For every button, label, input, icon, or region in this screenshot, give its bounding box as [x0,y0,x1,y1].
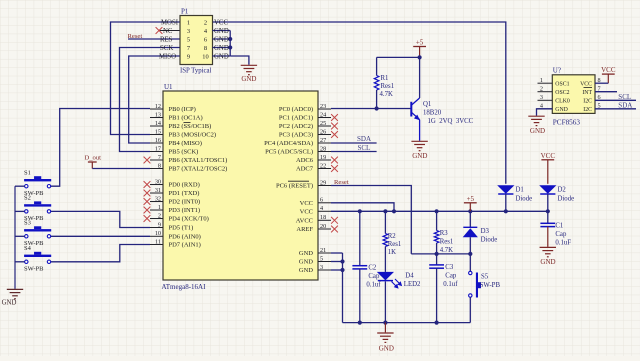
diode D3 [469,211,471,227]
svg-text:PB3 (MOSI/OC2): PB3 (MOSI/OC2) [169,132,217,139]
svg-text:SCL: SCL [358,144,371,152]
svg-text:27: 27 [320,137,326,144]
svg-text:MOSI: MOSI [161,20,179,27]
junction reset D3 [468,252,472,256]
transistor Q1 18B20 [419,57,421,98]
junction gnd pin3 [340,268,344,272]
svg-text:Cap: Cap [555,231,567,238]
svg-text:GND: GND [299,267,313,274]
svg-text:10: 10 [155,230,161,237]
svg-text:GND: GND [214,54,229,61]
svg-text:25: 25 [320,120,326,127]
junction +5 collector [418,55,422,59]
pin NC stub with no-connect X on P1 pin 3 [159,30,180,32]
svg-text:3: 3 [187,28,190,35]
svg-text:Reset: Reset [334,179,349,186]
svg-text:SDA: SDA [357,135,371,143]
svg-text:22: 22 [320,162,326,169]
wire S3 to U1 PD6 [51,235,150,237]
svg-text:PD2 (INT0): PD2 (INT0) [169,199,201,206]
overline on SS in PB2 pin name [184,122,191,124]
svg-text:18B20: 18B20 [423,110,442,117]
svg-text:PC6 (RESET): PC6 (RESET) [276,183,313,190]
microcontroller U1 body [163,91,318,280]
svg-text:15: 15 [155,128,161,135]
svg-text:ATmega8-16AI: ATmega8-16AI [162,283,207,291]
wire U1 PB0 to switch S1 [51,109,150,187]
diode D2 [539,185,556,194]
svg-text:PC1 (ADC1): PC1 (ADC1) [279,115,313,122]
svg-text:18: 18 [320,214,326,221]
svg-text:PD6 (AIN0): PD6 (AIN0) [169,234,201,241]
junction reset R3 [435,252,439,256]
svg-text:R1: R1 [381,75,389,82]
svg-text:GND: GND [241,75,256,83]
wire MISO from P1 pin 9 down to U1 PB4 [129,56,180,143]
svg-text:D3: D3 [481,228,490,235]
LED D4 [377,272,394,281]
svg-text:Res1: Res1 [381,83,395,90]
wire SCL stub on U1 PC5 [331,151,377,153]
U1 right pin stubs names numbers [318,108,331,110]
wire MOSI from P1 pin 1 down to U1 PB3 [111,22,181,135]
svg-text:C3: C3 [445,264,454,271]
svg-text:Reset: Reset [128,33,143,40]
svg-text:RES: RES [160,37,173,44]
wire U? pin 7 INT stub [595,91,617,93]
wire reset row R3 to S5 [411,253,470,255]
svg-text:SDA: SDA [618,102,632,110]
wire Reset from U1 PC6 down to reset row [331,186,411,254]
overline on INT pin name [584,87,593,89]
wire switch ground bus [14,186,16,289]
svg-text:PC0 (ADC0): PC0 (ADC0) [279,106,313,113]
svg-text:1: 1 [158,204,161,211]
rtc U? body [552,75,595,114]
svg-text:PB2 (SS/OC1B): PB2 (SS/OC1B) [169,123,212,130]
switch S4 [24,255,51,257]
junction R1 bottom [375,106,379,110]
wire U1 GND pins bracket [331,252,343,254]
svg-text:6: 6 [204,37,207,44]
svg-text:GND: GND [299,250,313,257]
svg-text:6: 6 [320,197,323,204]
svg-text:PC5 (ADC5/SCL): PC5 (ADC5/SCL) [265,149,313,156]
svg-text:PD3 (INT1): PD3 (INT1) [169,207,201,214]
junction bus LED [383,321,387,325]
ground under P1 [241,65,257,74]
svg-text:2: 2 [540,85,543,92]
wire +5 rail from U1 VCC pin4 to C1 [331,210,548,212]
svg-text:29: 29 [320,179,326,186]
capacitor C1 [547,211,549,223]
junction bus C3 [435,321,439,325]
svg-text:VCC: VCC [541,152,556,160]
svg-text:21: 21 [320,247,326,254]
svg-text:Res1: Res1 [388,241,402,248]
wire LED to gnd bus [384,282,386,323]
svg-text:GND: GND [412,152,427,160]
resistor R3 [436,211,438,230]
svg-text:GND: GND [299,259,313,266]
svg-text:5: 5 [320,255,323,262]
svg-text:S2: S2 [24,195,31,202]
svg-text:PD7 (AIN1): PD7 (AIN1) [169,242,201,249]
svg-text:PB0 (ICP): PB0 (ICP) [169,106,196,113]
ground under Q1 [411,141,427,150]
wire U? pin 6 SCL [595,99,636,101]
svg-text:S3: S3 [24,220,31,227]
svg-text:GND: GND [214,28,229,35]
svg-text:ISP Typical: ISP Typical [180,68,212,75]
svg-text:VCC: VCC [300,209,313,216]
junction P1 gnd 2 [228,45,232,49]
resistor R2 [384,211,386,233]
svg-text:1: 1 [187,20,190,27]
wire gnd bottom bus [343,322,471,324]
svg-text:AREF: AREF [296,226,313,233]
svg-text:19: 19 [320,154,326,161]
svg-text:SCL: SCL [618,93,631,101]
svg-text:1: 1 [540,77,543,84]
wire +5 to R1 and Q1 collector [377,56,420,58]
wire GND bracket P1 pins 4 6 8 10 [213,30,231,32]
junction rail R3 [435,209,439,213]
switch S2 [24,204,51,206]
svg-text:PC4 (ADC4/SDA): PC4 (ADC4/SDA) [264,140,313,147]
junction P1 gnd 1 [228,37,232,41]
svg-text:PD5 (T1): PD5 (T1) [169,225,194,232]
svg-text:GND: GND [555,107,568,113]
svg-text:PB4 (MISO): PB4 (MISO) [169,140,202,147]
svg-text:D2: D2 [558,187,567,194]
svg-text:14: 14 [155,120,161,127]
capacitor C3 [436,254,438,265]
svg-text:32: 32 [155,195,161,202]
svg-text:SW-PB: SW-PB [480,282,501,289]
junction rail C2 [358,209,362,213]
svg-text:0.1uF: 0.1uF [555,240,571,247]
svg-text:PB6 (XTAL1/TOSC1): PB6 (XTAL1/TOSC1) [169,157,228,164]
wire S4 to U1 PD7 [51,245,150,262]
svg-text:16: 16 [155,137,161,144]
svg-text:2: 2 [158,212,161,219]
svg-text:GND: GND [540,258,555,266]
svg-text:1G 2VQ 3VCC: 1G 2VQ 3VCC [428,118,474,125]
wire S3 left to gnd bus [15,235,25,237]
wire S4 left to gnd bus [15,261,25,263]
svg-text:30: 30 [155,178,161,185]
svg-text:Cap: Cap [368,273,380,280]
svg-text:PB1 (OC1A): PB1 (OC1A) [169,115,203,122]
capacitor C2 [359,211,361,265]
wire S5 to gnd bus [469,297,471,322]
svg-text:NC: NC [163,28,173,35]
svg-text:R2: R2 [388,233,397,240]
svg-text:I2C: I2C [583,99,592,105]
svg-text:D1: D1 [516,187,524,194]
wire U? GND pin 4 to ground [537,109,553,116]
svg-text:PB7 (XTAL2/TOSC2): PB7 (XTAL2/TOSC2) [169,166,228,173]
svg-text:Diode: Diode [481,237,498,244]
svg-text:CLK0: CLK0 [555,99,570,105]
junction rail +5 [468,209,472,213]
svg-text:Cap: Cap [445,272,457,279]
svg-text:D4: D4 [405,273,414,280]
svg-text:SCK: SCK [160,45,173,52]
junction bus C2 [358,321,362,325]
svg-text:10: 10 [202,54,208,61]
svg-text:Diode: Diode [516,196,533,203]
ground under C1 [540,247,556,256]
svg-text:9: 9 [187,54,190,61]
switch S1 [24,179,51,181]
svg-text:+5: +5 [467,195,475,203]
svg-text:+5: +5 [416,39,424,47]
svg-text:8: 8 [204,45,207,52]
svg-text:13: 13 [155,111,161,118]
junction rail pin6 [392,209,396,213]
svg-text:R3: R3 [440,230,449,237]
wire U1 PC0 to Q1 base [331,108,411,110]
wire RES stub on P1 pin 5 [128,38,180,40]
svg-text:MISO: MISO [159,54,176,61]
svg-text:GND: GND [214,45,229,52]
U1 left pin stubs names numbers [150,108,163,110]
svg-text:5: 5 [187,37,190,44]
svg-text:4.7K: 4.7K [380,91,393,98]
wire S2 to U1 PD5 [51,211,150,227]
svg-text:0.1uf: 0.1uf [366,281,381,288]
svg-text:PCF8563: PCF8563 [553,119,581,127]
svg-text:2: 2 [204,20,207,27]
resistor R1 [376,57,378,75]
wire SCK from P1 pin 7 down to U1 PB5 [120,48,181,152]
svg-text:GND: GND [530,127,545,135]
svg-text:24: 24 [320,111,326,118]
junction rail C1 [546,209,550,213]
svg-text:OSC1: OSC1 [555,81,569,87]
ground mid bottom [384,323,386,333]
svg-text:GND: GND [379,345,394,353]
ground under U? [528,116,544,125]
svg-text:SW-PB: SW-PB [24,265,44,272]
svg-text:U1: U1 [164,83,173,91]
junction gnd pin5 [340,259,344,263]
svg-text:S4: S4 [24,245,32,252]
svg-text:1K: 1K [388,249,396,256]
wire S1 left to gnd bus [15,185,25,187]
svg-text:9: 9 [158,221,161,228]
wire U1 VCC pin6 to rail [331,203,394,212]
U? left pin stubs and numbers [538,82,553,84]
svg-text:U?: U? [553,67,561,75]
svg-text:12: 12 [155,103,161,110]
svg-text:VCC: VCC [601,66,616,74]
wire U? pin 5 SDA [595,108,636,110]
svg-text:AVCC: AVCC [296,218,313,225]
svg-text:17: 17 [155,145,161,152]
connector P1 body [180,16,213,65]
svg-text:D_out: D_out [85,155,102,162]
wire S2 left to gnd bus [15,210,25,212]
svg-text:4.7K: 4.7K [440,247,453,254]
svg-text:OSC2: OSC2 [555,90,569,96]
svg-text:VCC: VCC [214,20,228,27]
svg-text:7: 7 [158,154,161,161]
svg-text:31: 31 [155,187,161,194]
svg-text:Q1: Q1 [423,101,431,108]
junction rail D1 [504,209,508,213]
svg-text:VCC: VCC [580,81,592,87]
svg-text:Diode: Diode [558,196,575,203]
svg-text:ADC7: ADC7 [296,166,314,173]
svg-text:23: 23 [320,103,326,110]
svg-text:4: 4 [320,205,323,212]
overline on RESET pin name [288,180,309,182]
svg-text:PC3 (ADC3): PC3 (ADC3) [279,132,313,139]
diode D1 [497,185,514,194]
svg-text:3: 3 [540,94,543,101]
svg-text:28: 28 [320,145,326,152]
svg-text:LED2: LED2 [404,281,421,288]
svg-text:C1: C1 [555,222,563,229]
svg-text:3: 3 [320,264,323,271]
svg-text:20: 20 [320,223,326,230]
svg-text:8: 8 [158,162,161,169]
switch S5 [469,254,471,271]
svg-text:11: 11 [155,238,161,245]
switch S3 [24,229,51,231]
svg-text:PD0 (RXD): PD0 (RXD) [169,182,200,189]
svg-text:GND: GND [2,300,17,307]
svg-text:INT: INT [582,90,592,96]
svg-text:PD4 (XCK/T0): PD4 (XCK/T0) [169,216,209,223]
svg-text:S5: S5 [481,274,489,281]
svg-text:VCC: VCC [300,200,313,207]
ground at switch bus [7,289,23,298]
wire D_out to U1 PB7 [92,168,150,170]
svg-text:P1: P1 [181,8,189,16]
wire VCC from P1 pin 2 to diode D1 [213,22,506,184]
svg-text:C2: C2 [368,264,377,271]
svg-text:Res1: Res1 [440,239,454,246]
svg-text:0.1uf: 0.1uf [443,281,458,288]
svg-text:GND: GND [214,37,229,44]
svg-text:S1: S1 [24,170,31,177]
wire U? pin 8 to VCC [595,82,608,84]
junction rail R2 [383,209,387,213]
svg-text:I2C: I2C [583,107,592,113]
svg-text:26: 26 [320,128,326,135]
svg-text:ADC6: ADC6 [296,157,314,164]
svg-text:PB5 (SCK): PB5 (SCK) [169,149,199,156]
svg-text:PD1 (TXD): PD1 (TXD) [169,190,200,197]
wire SDA stub on U1 PC4 [331,142,377,144]
svg-text:PC2 (ADC2): PC2 (ADC2) [279,123,313,130]
